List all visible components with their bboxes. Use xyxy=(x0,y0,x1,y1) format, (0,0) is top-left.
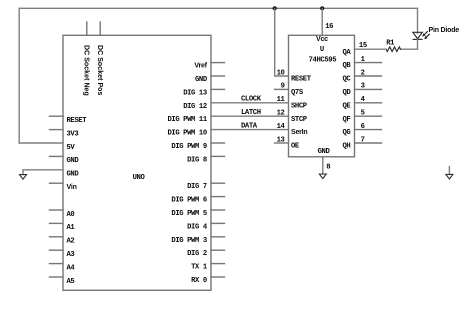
svg-text:A1: A1 xyxy=(67,224,76,232)
svg-text:DIG PWM 6: DIG PWM 6 xyxy=(171,197,206,205)
pin: UNO GND (second) with wire to ground xyxy=(23,170,63,175)
svg-text:GND: GND xyxy=(67,171,80,179)
svg-text:QB: QB xyxy=(343,62,352,70)
svg-text:QE: QE xyxy=(343,102,352,110)
svg-text:DIG 8: DIG 8 xyxy=(187,156,207,164)
pin: UNO DIG PWM 11 / wire LATCH to 595 xyxy=(211,115,289,117)
svg-text:16: 16 xyxy=(325,23,333,31)
pin: UNO DIG PWM 6 xyxy=(211,196,225,198)
wire: R1 to 595 QA pin 15 xyxy=(355,48,387,50)
pin: 595 GND (8) wire down to ground xyxy=(322,157,324,174)
LED D1 'Pin Diode' symbol xyxy=(413,32,429,40)
pin: UNO GND xyxy=(50,155,64,157)
wire: top rail down to 595 RESET pin 10 xyxy=(275,8,289,76)
svg-text:QG: QG xyxy=(343,129,351,137)
svg-text:A4: A4 xyxy=(67,264,76,272)
svg-text:A2: A2 xyxy=(67,238,75,246)
svg-text:GND: GND xyxy=(195,76,208,84)
pin: 595 QB (1) xyxy=(355,62,382,64)
pin: UNO A2 xyxy=(50,236,64,238)
svg-text:Vref: Vref xyxy=(194,63,207,70)
pin: UNO GND xyxy=(211,75,225,77)
svg-text:DIG PWM 3: DIG PWM 3 xyxy=(171,237,206,245)
pin: UNO DIG 4 xyxy=(211,222,225,224)
svg-text:6: 6 xyxy=(361,123,365,131)
wire: UNO 5V pin to left rail corner xyxy=(19,142,63,144)
svg-text:3V3: 3V3 xyxy=(67,130,79,138)
pin: 595 QD (3) xyxy=(355,88,382,90)
svg-text:7: 7 xyxy=(361,136,365,144)
pin: UNO A1 xyxy=(50,222,64,224)
svg-text:TX 1: TX 1 xyxy=(191,264,208,272)
svg-text:DIG PWM 9: DIG PWM 9 xyxy=(171,143,206,151)
ground symbol at UNO GND xyxy=(20,175,27,180)
svg-text:DC Socket Neg: DC Socket Neg xyxy=(83,45,90,96)
pin: UNO A5 xyxy=(50,276,64,278)
pin: UNO DIG 12 / wire CLOCK to 595 xyxy=(211,102,289,104)
wire: top rail down to 595 Vcc pin 16 xyxy=(321,8,323,35)
svg-text:RESET: RESET xyxy=(67,117,88,125)
junction: top rail to 595 RESET drop xyxy=(273,6,277,10)
svg-text:QF: QF xyxy=(343,116,351,124)
svg-text:3: 3 xyxy=(361,83,365,91)
svg-text:GND: GND xyxy=(67,157,80,165)
pin: 595 QE (4) xyxy=(355,102,382,104)
wire: top horizontal 5V rail xyxy=(19,7,417,9)
junction: top rail to 595 Vcc drop xyxy=(320,6,324,10)
svg-text:DC Socket Pos: DC Socket Pos xyxy=(96,45,103,95)
svg-text:UNO: UNO xyxy=(133,174,146,182)
svg-text:Vin: Vin xyxy=(67,184,77,191)
svg-text:OE: OE xyxy=(291,143,300,151)
svg-text:9: 9 xyxy=(281,83,285,91)
svg-text:DIG 13: DIG 13 xyxy=(183,89,207,97)
svg-text:13: 13 xyxy=(277,136,285,144)
svg-text:A0: A0 xyxy=(67,211,75,219)
svg-text:DIG 12: DIG 12 xyxy=(183,103,207,111)
pin: UNO A4 xyxy=(50,263,64,265)
wire: top rail down to LED anode xyxy=(417,8,419,33)
svg-text:DIG PWM 10: DIG PWM 10 xyxy=(167,130,206,138)
svg-text:DIG 7: DIG 7 xyxy=(187,183,207,191)
pin: UNO DIG 13 xyxy=(211,88,225,90)
svg-text:R1: R1 xyxy=(386,40,395,48)
svg-text:QD: QD xyxy=(343,89,352,97)
svg-text:5: 5 xyxy=(361,110,365,118)
pin: 595 Q7S (9) xyxy=(275,88,289,90)
svg-text:DIG PWM 5: DIG PWM 5 xyxy=(171,210,206,218)
pin: DC Socket Pos (top) xyxy=(99,22,101,35)
svg-text:14: 14 xyxy=(277,123,286,131)
shift register U 74HC595 body xyxy=(289,35,355,157)
svg-text:LATCH: LATCH xyxy=(241,109,261,117)
microcontroller UNO (Arduino) body xyxy=(63,35,211,290)
svg-text:GND: GND xyxy=(318,148,331,156)
pin: 595 QH (7) xyxy=(355,142,382,144)
svg-text:2: 2 xyxy=(361,69,365,77)
ground symbol (floating, right side) xyxy=(446,167,453,179)
pin: UNO DIG 8 xyxy=(211,155,225,157)
svg-text:STCP: STCP xyxy=(291,116,308,124)
pin: UNO DIG PWM 10 / wire DATA to 595 xyxy=(211,129,289,131)
svg-text:Pin Diode: Pin Diode xyxy=(429,27,460,34)
pin: UNO Vin xyxy=(50,182,64,184)
svg-text:5V: 5V xyxy=(67,144,76,152)
svg-text:QA: QA xyxy=(343,49,352,57)
svg-text:RX 0: RX 0 xyxy=(191,277,207,285)
svg-text:74HC595: 74HC595 xyxy=(309,56,337,64)
svg-text:QC: QC xyxy=(343,76,352,84)
svg-text:11: 11 xyxy=(277,96,286,104)
pin: 595 QC (2) xyxy=(355,75,382,77)
pin: DC Socket Neg (top) xyxy=(86,22,88,35)
svg-text:SHCP: SHCP xyxy=(291,102,308,110)
svg-text:U: U xyxy=(320,46,324,54)
wire: LED cathode down and left to R1 xyxy=(401,39,418,49)
pin: UNO A3 xyxy=(50,249,64,251)
svg-text:RESET: RESET xyxy=(291,76,312,84)
pin: UNO TX 1 xyxy=(211,263,225,265)
svg-text:QH: QH xyxy=(343,143,351,151)
pin: UNO DIG PWM 5 xyxy=(211,209,225,211)
svg-text:DATA: DATA xyxy=(241,122,258,130)
ground symbol at 595 GND xyxy=(319,174,326,179)
svg-text:A3: A3 xyxy=(67,251,75,259)
svg-text:DIG 4: DIG 4 xyxy=(187,223,208,231)
svg-text:SerIn: SerIn xyxy=(291,129,308,136)
resistor R1 zigzag xyxy=(386,47,400,52)
svg-text:8: 8 xyxy=(326,164,330,172)
svg-text:Q7S: Q7S xyxy=(291,89,304,97)
svg-text:12: 12 xyxy=(277,110,285,118)
svg-text:CLOCK: CLOCK xyxy=(241,96,262,104)
svg-text:A5: A5 xyxy=(67,278,75,286)
svg-text:DIG 2: DIG 2 xyxy=(187,250,207,258)
svg-text:Vcc: Vcc xyxy=(316,36,328,43)
pin: UNO DIG PWM 9 xyxy=(211,142,225,144)
svg-text:DIG PWM 11: DIG PWM 11 xyxy=(167,116,207,124)
pin: UNO DIG PWM 3 xyxy=(211,236,225,238)
svg-text:15: 15 xyxy=(359,42,367,50)
pin: UNO Vref xyxy=(211,62,225,64)
pin: 595 OE (13) xyxy=(275,142,289,144)
pin: UNO DIG 7 xyxy=(211,182,225,184)
pin: UNO DIG 2 xyxy=(211,249,225,251)
pin: UNO A0 xyxy=(50,209,64,211)
pin: UNO RESET xyxy=(50,115,64,117)
pin: UNO RX 0 xyxy=(211,276,225,278)
pin: 595 QG (6) xyxy=(355,129,382,131)
wire: left vertical 5V rail xyxy=(18,8,20,143)
pin: UNO 3V3 xyxy=(50,129,64,131)
svg-text:10: 10 xyxy=(277,69,285,77)
pin: 595 QF (5) xyxy=(355,115,382,117)
